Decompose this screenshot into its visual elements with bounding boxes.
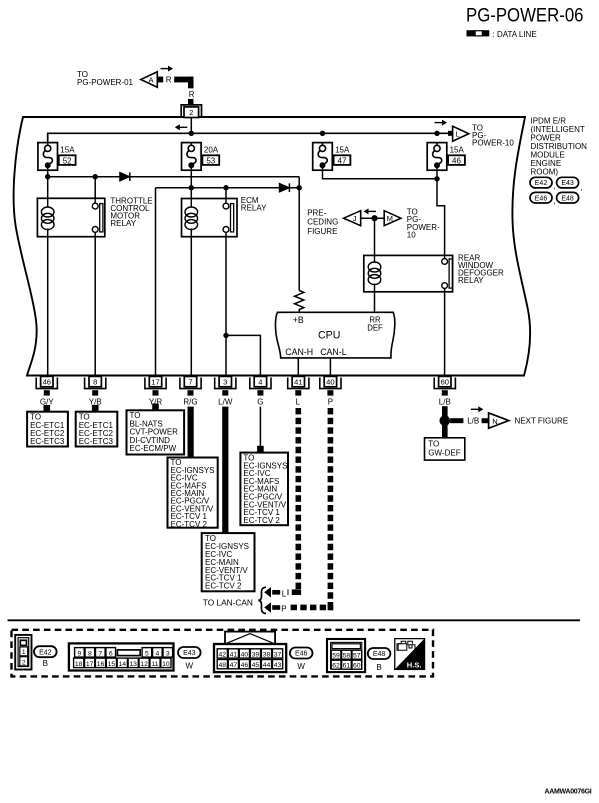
svg-text:J: J xyxy=(353,214,357,223)
svg-text:ROOM): ROOM) xyxy=(531,167,559,176)
svg-text:B: B xyxy=(376,663,381,672)
svg-text:,: , xyxy=(553,182,555,191)
H.S. logo xyxy=(394,638,425,670)
svg-text:CPU: CPU xyxy=(318,329,340,341)
svg-text:L: L xyxy=(456,130,460,139)
svg-text:CEDING: CEDING xyxy=(307,218,338,227)
direction arrow (right) before L triangle xyxy=(435,122,443,124)
svg-text:AAMWA0076GI: AAMWA0076GI xyxy=(545,788,592,795)
connector E42 drawing xyxy=(15,635,31,670)
separator line xyxy=(8,619,581,621)
svg-text:12: 12 xyxy=(140,661,148,668)
svg-text:7: 7 xyxy=(98,650,102,657)
wire pin2 to bus xyxy=(190,118,192,134)
thick wire R/G to box 4 xyxy=(188,407,194,458)
connector pin 41 xyxy=(288,378,309,389)
wire to pin 17 xyxy=(155,188,157,377)
svg-text:40: 40 xyxy=(326,378,334,387)
svg-text:P: P xyxy=(328,398,333,407)
svg-text:,: , xyxy=(580,183,582,192)
svg-text:2: 2 xyxy=(189,108,193,117)
svg-text:EC-ECM/PW: EC-ECM/PW xyxy=(130,444,177,453)
svg-text:R: R xyxy=(166,76,172,85)
svg-text:G: G xyxy=(257,398,263,407)
svg-text:47: 47 xyxy=(230,662,238,669)
svg-text:+B: +B xyxy=(293,315,304,325)
svg-text:53: 53 xyxy=(206,156,215,165)
thick wire right to N triangle xyxy=(450,418,463,423)
svg-text:18: 18 xyxy=(75,661,83,668)
svg-text:2: 2 xyxy=(22,659,26,666)
wire from fuse 52 with branch and diode to +B xyxy=(47,168,49,198)
svg-text:RELAY: RELAY xyxy=(458,276,484,285)
wire junction down to defogger coil xyxy=(374,218,376,255)
connector E46 drawing xyxy=(225,632,275,644)
connector-ref triangle N, NEXT FIGURE xyxy=(489,413,509,428)
svg-text:W: W xyxy=(297,662,305,671)
direction arrow (left) above J-M junction xyxy=(368,210,376,212)
svg-text:5: 5 xyxy=(145,650,149,657)
diode D1 xyxy=(120,172,130,181)
svg-text:PG-POWER-06: PG-POWER-06 xyxy=(466,5,584,27)
svg-text:E46: E46 xyxy=(535,195,548,202)
arrow P xyxy=(272,605,280,610)
connector ref E43 oval xyxy=(178,647,201,658)
svg-text:10: 10 xyxy=(407,230,416,239)
svg-text:E42: E42 xyxy=(535,180,548,187)
svg-text:8: 8 xyxy=(93,378,97,387)
svg-text:E48: E48 xyxy=(373,651,386,658)
svg-text:EC-TCV 2: EC-TCV 2 xyxy=(205,582,242,591)
connector ref E48 oval xyxy=(368,648,391,659)
wire to +B with resistor xyxy=(298,188,300,291)
svg-text:L/B: L/B xyxy=(439,398,451,407)
svg-text:40: 40 xyxy=(241,652,249,659)
svg-text:L: L xyxy=(296,398,301,407)
wire branch to throttle relay switch xyxy=(94,177,96,204)
TO EC-ETC box 2 xyxy=(92,405,99,412)
wire branch from pin3 line to pin 4 xyxy=(223,333,228,338)
svg-text:6: 6 xyxy=(109,650,113,657)
connector pin 17 xyxy=(145,378,166,389)
thick wire L/W to box 5 xyxy=(222,407,228,534)
svg-text:60: 60 xyxy=(441,378,449,387)
svg-text:EC-TCV 2: EC-TCV 2 xyxy=(243,516,280,525)
svg-text:59: 59 xyxy=(332,653,340,660)
wire J to M with junction xyxy=(361,217,384,219)
svg-text:N: N xyxy=(492,417,497,426)
TO EC-IGNSYS box 5 xyxy=(202,533,255,591)
wire fuse 47 to fuse 46 junction xyxy=(323,168,438,179)
svg-text:E43: E43 xyxy=(183,650,196,657)
connector pin 4 xyxy=(250,378,271,389)
relay: throttle control motor relay xyxy=(37,198,104,236)
wire fuse 46 down to defogger relay xyxy=(436,168,438,179)
svg-text:41: 41 xyxy=(230,652,238,659)
wire from fuse 53 with branches and diode xyxy=(190,168,192,199)
svg-text:62: 62 xyxy=(332,663,340,670)
connector-ref triangle L, TO PG-POWER-10 xyxy=(448,131,453,136)
svg-text:L: L xyxy=(282,590,287,599)
svg-text:DEF: DEF xyxy=(367,324,383,333)
wire CAN-L to pin 40 xyxy=(329,358,331,377)
wire CAN-H to pin 41 xyxy=(297,358,299,377)
svg-text:3: 3 xyxy=(166,650,170,657)
svg-text:M: M xyxy=(387,214,393,223)
TO GW-DEF box xyxy=(425,438,465,460)
svg-text:3: 3 xyxy=(223,378,227,387)
thick wire R (to pin 2) xyxy=(158,77,164,83)
connector refs E42 E43 E46 E48 xyxy=(530,177,552,188)
svg-text:20A: 20A xyxy=(204,145,219,154)
svg-text:NEXT FIGURE: NEXT FIGURE xyxy=(515,417,569,426)
svg-text:L/W: L/W xyxy=(218,398,233,407)
connector pin 40 xyxy=(320,378,341,389)
svg-text:47: 47 xyxy=(338,156,347,165)
svg-text:1: 1 xyxy=(22,649,26,656)
connector-ref triangle J xyxy=(344,211,361,226)
svg-text:14: 14 xyxy=(119,661,127,668)
svg-text:POWER-10: POWER-10 xyxy=(472,139,514,148)
connector E48 drawing xyxy=(327,639,365,672)
svg-text:4: 4 xyxy=(155,650,159,657)
svg-text:P: P xyxy=(281,605,286,614)
fuse 15A 52 xyxy=(38,143,58,171)
svg-text:37: 37 xyxy=(274,652,282,659)
svg-text:61: 61 xyxy=(343,663,351,670)
svg-text:11: 11 xyxy=(151,661,158,668)
svg-text:: DATA LINE: : DATA LINE xyxy=(493,30,537,39)
svg-text:46: 46 xyxy=(241,662,249,669)
svg-text:B: B xyxy=(43,659,48,668)
legend dashed border xyxy=(12,630,434,677)
connector pin 2 (IPDM) xyxy=(181,105,201,117)
connector-ref triangle M xyxy=(384,211,401,226)
svg-text:CAN-H: CAN-H xyxy=(285,347,313,357)
svg-text:FIGURE: FIGURE xyxy=(307,227,337,236)
svg-text:43: 43 xyxy=(274,662,282,669)
svg-text:EC-ETC3: EC-ETC3 xyxy=(30,437,65,446)
direction arrow (right) on R wire xyxy=(161,68,169,70)
wire G to box 6 xyxy=(259,407,261,446)
svg-text:60: 60 xyxy=(353,663,361,670)
svg-text:17: 17 xyxy=(86,661,94,668)
svg-text:7: 7 xyxy=(188,378,192,387)
svg-text:15A: 15A xyxy=(450,145,465,154)
svg-text:58: 58 xyxy=(343,653,351,660)
svg-text:E46: E46 xyxy=(295,651,308,658)
arrow L xyxy=(272,590,280,595)
svg-text:PG-POWER-01: PG-POWER-01 xyxy=(77,78,134,87)
CPU block (wavy) xyxy=(275,312,394,358)
wire L/B from pin 60 xyxy=(442,406,448,416)
TO EC-IGNSYS box 4 xyxy=(168,458,218,528)
TO EC-ETC box 1 xyxy=(44,405,51,412)
svg-text:17: 17 xyxy=(151,378,159,387)
relay: rear window defogger relay xyxy=(364,255,453,291)
fuse 15A 47 xyxy=(313,143,333,171)
svg-text:TO LAN-CAN: TO LAN-CAN xyxy=(203,597,253,607)
fuse 15A 46 xyxy=(427,143,447,171)
svg-text:R/G: R/G xyxy=(183,398,197,407)
connector-ref triangle A xyxy=(141,72,158,87)
connector pin 46 xyxy=(36,378,57,389)
svg-text:48: 48 xyxy=(219,662,227,669)
brace xyxy=(258,587,266,613)
relay: ECM relay xyxy=(182,199,238,237)
direction arrow (right) above L/B xyxy=(471,408,479,410)
svg-text:41: 41 xyxy=(294,378,302,387)
svg-text:L/B: L/B xyxy=(467,417,479,426)
svg-text:13: 13 xyxy=(129,661,137,668)
svg-text:H.S.: H.S. xyxy=(407,660,422,669)
TO EC-IGNSYS box 6 xyxy=(257,446,264,453)
svg-text:45: 45 xyxy=(252,662,260,669)
svg-text:15A: 15A xyxy=(60,145,75,154)
svg-text:15A: 15A xyxy=(335,145,350,154)
wire corner down to junction with fuse53 row xyxy=(298,177,300,188)
svg-text:9: 9 xyxy=(78,650,82,657)
svg-text:EC-ETC3: EC-ETC3 xyxy=(79,437,114,446)
svg-text:16: 16 xyxy=(97,661,105,668)
direction arrow (left) below pin 2 xyxy=(179,126,187,128)
svg-text:W: W xyxy=(186,661,194,670)
svg-text:10: 10 xyxy=(162,661,170,668)
svg-text:CAN-L: CAN-L xyxy=(320,347,347,357)
connector E43 drawing xyxy=(69,643,174,670)
fuse 20A 53 xyxy=(182,143,202,171)
wire branch to ECM relay switch xyxy=(225,188,227,204)
svg-text:46: 46 xyxy=(452,156,461,165)
legend: data line sample xyxy=(467,30,476,36)
svg-text:E42: E42 xyxy=(39,649,52,656)
svg-text:GW-DEF: GW-DEF xyxy=(428,448,460,457)
svg-text:,: , xyxy=(553,197,555,206)
svg-text:39: 39 xyxy=(252,652,260,659)
svg-text:46: 46 xyxy=(43,378,51,387)
svg-text:TO: TO xyxy=(428,440,439,449)
connector pin 3 xyxy=(215,378,236,389)
connector ref E42 oval xyxy=(34,646,57,657)
svg-text:RELAY: RELAY xyxy=(110,219,136,228)
svg-text:RELAY: RELAY xyxy=(241,204,267,213)
svg-text:15: 15 xyxy=(108,661,116,668)
data line L (dashed) xyxy=(288,408,299,592)
svg-text:PRE-: PRE- xyxy=(307,208,326,217)
svg-text:8: 8 xyxy=(88,650,92,657)
connector pin 8 xyxy=(85,378,106,389)
svg-text:EC-TCV 2: EC-TCV 2 xyxy=(171,520,208,529)
svg-text:E48: E48 xyxy=(561,195,574,202)
svg-text:4: 4 xyxy=(258,378,262,387)
diode D2 xyxy=(279,183,289,192)
connector ref E46 oval xyxy=(290,648,313,659)
svg-text:57: 57 xyxy=(353,653,361,660)
TO BL-NATS box 3 xyxy=(152,404,159,411)
bus wire from pin 2 across fuses xyxy=(48,133,450,142)
connector pin 7 xyxy=(180,378,201,389)
svg-text:E43: E43 xyxy=(561,180,574,187)
svg-text:44: 44 xyxy=(263,662,271,669)
connector pin 60 xyxy=(434,378,455,389)
svg-text:42: 42 xyxy=(219,652,227,659)
svg-text:38: 38 xyxy=(263,652,271,659)
svg-text:R: R xyxy=(189,90,195,99)
IPDM E/R enclosure frame (wavy box) xyxy=(14,117,530,376)
svg-text:52: 52 xyxy=(63,156,72,165)
data line P (dashed) xyxy=(288,408,331,607)
